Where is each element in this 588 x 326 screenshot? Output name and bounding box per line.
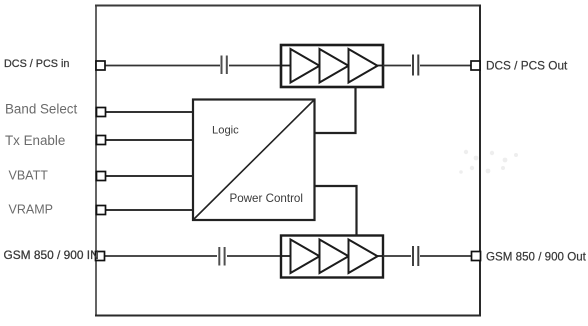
wire Tx Enable to logic [105,139,193,141]
wire VBATT to logic [105,175,193,177]
svg-text:Band Select: Band Select [5,102,77,117]
svg-text:GSM 850 / 900 IN: GSM 850 / 900 IN [4,248,99,262]
amp stage 6 triangle [349,240,378,274]
pin VBATT [97,172,106,181]
pin GSM 850/900 Out [472,252,481,261]
amp stage 5 triangle [320,240,349,274]
wire DCS amplifier to cap C2 [383,65,411,67]
wire DCS amp bias from logic [315,87,356,133]
amplifier U2 (GSM 3-stage PA) [281,236,383,278]
capacitor C3 (GSM input blocking cap) [219,247,224,266]
capacitor C4 (GSM output blocking cap) [413,246,418,266]
amp stage 4 triangle [291,240,320,274]
wire cap C1 to DCS amplifier [229,65,281,67]
amp stage 1 triangle [291,49,320,83]
wire GSM amp bias from logic [315,186,357,236]
amp stage 2 triangle [320,49,349,83]
svg-text:Power Control: Power Control [230,192,303,205]
wire cap C2 to DCS output pin [420,65,471,67]
wire cap C4 to GSM output pin [420,255,472,257]
pin Tx Enable [97,136,106,145]
svg-text:VRAMP: VRAMP [9,203,53,217]
capacitor C2 (DCS output blocking cap) [413,55,418,76]
wire cap C3 to GSM amplifier [227,255,282,257]
amplifier U1 (DCS 3-stage PA) [281,45,383,87]
pin VRAMP [97,206,106,215]
pin GSM 850/900 IN [96,252,105,261]
svg-text:Tx Enable: Tx Enable [5,133,65,148]
module outline box [95,5,481,317]
svg-text:DCS / PCS in: DCS / PCS in [4,58,69,70]
wire VRAMP to logic [105,209,193,211]
wire stage 6 apex to box edge [376,255,383,257]
pin Band Select [97,108,106,117]
wire DCS input to cap C1 [105,65,220,67]
svg-text:VBATT: VBATT [9,169,49,183]
pin DCS / PCS Out [471,61,480,70]
pin DCS / PCS in [96,61,105,70]
svg-text:GSM 850 / 900 Out: GSM 850 / 900 Out [486,251,587,264]
wire Band Select to logic [105,111,193,113]
svg-text:Logic: Logic [212,125,239,137]
wire GSM amplifier to cap C4 [383,255,411,257]
faint watermark smudge [459,150,518,174]
wire GSM input to cap C3 [104,255,217,257]
wire stage 3 apex to box edge [376,65,383,67]
capacitor C1 (DCS input blocking cap) [222,56,227,75]
amp stage 3 triangle [349,49,378,83]
logic / power control block U3 [193,100,315,221]
svg-text:DCS / PCS Out: DCS / PCS Out [486,59,568,73]
